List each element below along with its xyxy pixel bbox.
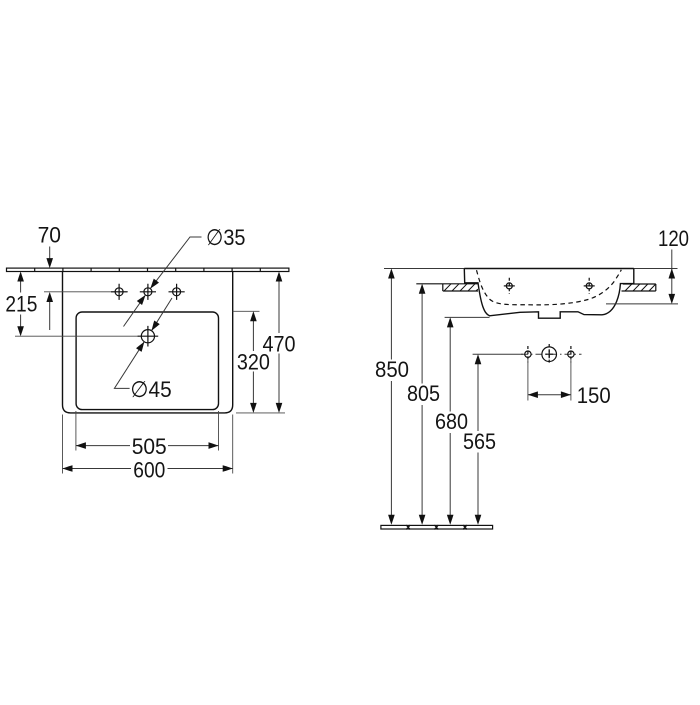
dim 120 (658, 226, 689, 304)
basin silhouette (464, 269, 634, 319)
svg-text:∅45: ∅45 (130, 377, 171, 402)
dim 215 (5, 272, 37, 337)
svg-text:505: 505 (132, 434, 167, 459)
dim 850 (375, 269, 409, 525)
dim 470 (263, 272, 296, 413)
svg-text:470: 470 (263, 331, 296, 356)
hidden bowl dashed curve (477, 270, 622, 305)
faucet hole line (44, 291, 128, 293)
wall bracket hatch left (416, 284, 478, 291)
dim 320 (237, 311, 270, 413)
dim 70 (38, 222, 61, 330)
drain hole center line (15, 335, 139, 337)
faucet hole middle (140, 284, 156, 300)
svg-text:850: 850 (375, 357, 409, 382)
svg-text:120: 120 (658, 226, 689, 251)
drain hole (138, 326, 159, 347)
svg-text:150: 150 (577, 383, 611, 408)
dim 805 (407, 284, 440, 525)
mounting hole small left (525, 346, 531, 362)
faucet hole right (169, 284, 185, 300)
screw hole left (504, 278, 515, 294)
svg-text:600: 600 (133, 457, 165, 482)
extension lines 505 (76, 411, 219, 451)
ref line 680 (445, 316, 490, 318)
mounting holes center line (473, 353, 523, 355)
dim 600 (63, 457, 233, 482)
screw hole right (584, 278, 595, 294)
wall rail bar (segmented) (7, 268, 289, 271)
extension line inner-rim top right (233, 310, 260, 312)
extension line outer bottom right (236, 412, 285, 414)
svg-text:70: 70 (38, 222, 61, 247)
dim 505 (76, 434, 219, 459)
label D45 leader (114, 298, 172, 402)
mounting hole big (542, 344, 557, 364)
svg-text:565: 565 (463, 429, 496, 454)
svg-text:215: 215 (5, 292, 37, 317)
mounting hole small right (568, 346, 574, 362)
wall bracket hatch right (622, 284, 656, 291)
basin inner rim (76, 312, 218, 410)
faucet hole left (111, 284, 127, 300)
dim 565 (463, 354, 496, 525)
dim 680 (435, 317, 468, 524)
dim 150 (528, 383, 611, 408)
extension lines 600 (63, 415, 233, 474)
svg-text:805: 805 (407, 381, 440, 406)
ref line 120 bottom (606, 303, 678, 305)
floor bar (segmented) (381, 525, 493, 529)
svg-text:∅35: ∅35 (206, 225, 246, 250)
label D35 leader (124, 225, 246, 327)
basin deck top edge (464, 268, 634, 270)
top reference line (384, 268, 678, 270)
extension lines 150 (528, 360, 571, 401)
basin outer outline (63, 272, 233, 413)
